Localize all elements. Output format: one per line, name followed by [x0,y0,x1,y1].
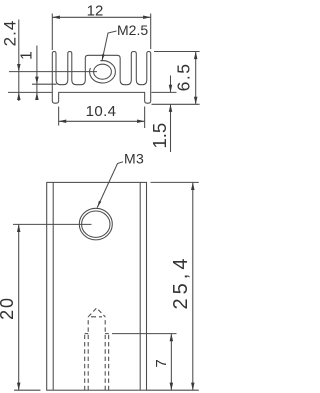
dimension 6.5: extension line at profile top [154,51,200,53]
front view left inner edge line [52,182,54,390]
M3 hole inner circle [82,211,110,237]
dimension 10.4: extension lines [58,107,60,126]
dimension 7: extension line at thread depth [112,333,177,335]
svg-text:2.4: 2.4 [1,20,20,47]
svg-text:6.5: 6.5 [174,63,194,92]
dimension 2.4: dimension line [18,20,20,102]
dimension 1: dimension line [36,46,38,101]
hidden drill hole right edge (dashed) [104,317,106,390]
front view body outline [47,182,147,390]
dimension 20: dimension line with arrows [18,224,20,390]
hidden drill hole left edge (dashed) [87,317,89,390]
dimension 1.5: dimension line segments with outside arrows [170,76,172,93]
dimension 25,4: dimension line with arrows [192,182,194,390]
hidden thread major right edge (dashed) [108,334,110,391]
svg-text:20: 20 [0,296,17,320]
svg-text:12: 12 [87,3,104,20]
hidden thread end step right [105,333,108,335]
dimension 1/2.4: extension line at mounting face [8,91,52,93]
svg-text:1.5: 1.5 [149,123,170,149]
svg-text:1: 1 [19,51,36,60]
M2.5 tapped hole, thread major 3/4 arc [90,61,116,83]
M3 label leader line [97,162,123,208]
hidden thread end step left [85,333,89,335]
hidden thread major left edge (dashed) [84,334,86,391]
dimension 1: extension line at fin valley bottom [32,83,57,85]
heatsink cross-section profile outline [52,52,150,104]
hole centerline (2.4 dim reference) [9,71,97,73]
M3 hole centerline / 20 dim extension [13,223,92,225]
hidden drill cone tip (dashed) [88,308,105,317]
svg-text:10.4: 10.4 [86,103,117,120]
svg-text:25,4: 25,4 [170,255,192,310]
dimension 12: extension lines [51,14,53,51]
dimension 20: extension line at bottom face [14,389,41,391]
M2.5 label leader line [102,31,117,61]
M3 hole outer circle [79,208,112,240]
dimension 25,4: extension lines [151,181,199,183]
dimension 12: dimension line with arrows [52,16,150,18]
dimension 7: dimension line with arrows [170,334,172,391]
front view right inner edge line [139,182,141,390]
dimension 10.4: dimension line with arrows [59,120,145,122]
dimension 6.5: dimension line with arrows [195,52,197,105]
svg-text:M2.5: M2.5 [117,22,148,38]
dimension 1.5: extension lines [152,91,177,93]
M2.5 tapped hole, minor circle [94,64,112,79]
svg-text:M3: M3 [124,151,144,167]
svg-text:7: 7 [153,359,170,367]
hidden drill cone base dash [91,316,102,318]
